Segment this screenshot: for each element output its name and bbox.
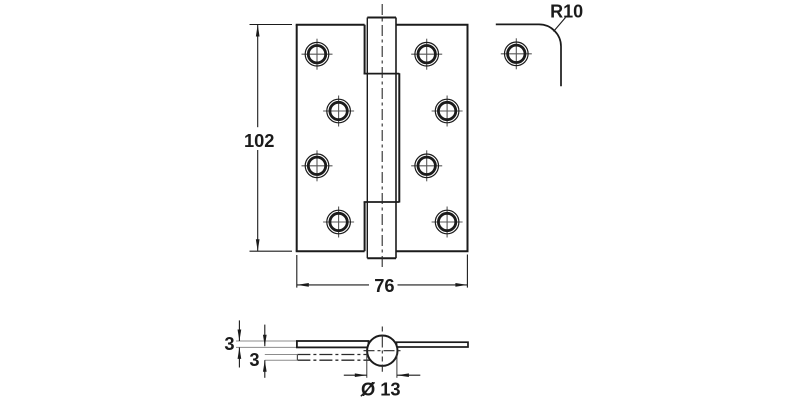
edge view vertical center line <box>381 327 383 372</box>
dimension 102 line with arrows <box>256 25 260 252</box>
knuckle bottom <box>364 202 400 252</box>
corner detail screw hole <box>501 38 532 69</box>
dimension 102 extension line top <box>250 24 293 26</box>
dimension text 76 <box>374 275 394 296</box>
dimension text 102 <box>244 130 275 151</box>
screw hole H6 <box>411 150 442 181</box>
svg-text:3: 3 <box>249 349 259 370</box>
svg-text:R10: R10 <box>550 1 583 21</box>
edge view leaf folded phantom <box>297 355 372 361</box>
dimension diameter 13 line with arrows <box>344 373 421 377</box>
hinge leaf right outline <box>396 25 469 252</box>
dimension diameter 13 extension line left <box>366 353 368 378</box>
edge view extension lines for leaf thickness <box>236 341 297 360</box>
screw hole H1 <box>302 39 333 70</box>
pin center line <box>381 4 383 269</box>
screw hole H3 <box>323 96 354 127</box>
screw hole H8 <box>432 207 463 238</box>
screw hole H4 <box>432 96 463 127</box>
edge view leaf left solid <box>297 341 369 347</box>
dimension 76 extension line right <box>466 255 468 288</box>
edge view horizontal center line <box>364 350 402 352</box>
svg-text:3: 3 <box>224 333 234 354</box>
screw hole H7 <box>323 207 354 238</box>
edge view leaf right solid <box>397 342 469 347</box>
screw hole H5 <box>302 150 333 181</box>
svg-text:102: 102 <box>244 130 275 151</box>
svg-text:76: 76 <box>374 275 394 296</box>
dimension 3 upper leaf <box>238 320 242 367</box>
corner detail leader line <box>554 18 566 32</box>
corner detail text R10 <box>550 1 583 21</box>
dimension 76 extension line left <box>296 255 298 288</box>
dimension text 3 lower <box>249 349 259 370</box>
hinge leaf left outline <box>296 25 365 252</box>
screw hole H2 <box>411 39 442 70</box>
dimension diameter 13 extension line right <box>396 353 398 378</box>
dimension 76 line with arrows <box>297 283 468 287</box>
knuckle top <box>364 25 400 74</box>
corner detail R10 outline <box>496 24 561 86</box>
knuckle middle <box>398 73 400 202</box>
dimension 3 lower leaf <box>263 325 267 378</box>
dimension text diameter 13 <box>361 379 401 400</box>
dimension text 3 upper <box>224 333 234 354</box>
edge view barrel circle <box>367 336 397 366</box>
dimension 102 extension line bottom <box>250 250 293 252</box>
hinge pin <box>367 18 396 259</box>
